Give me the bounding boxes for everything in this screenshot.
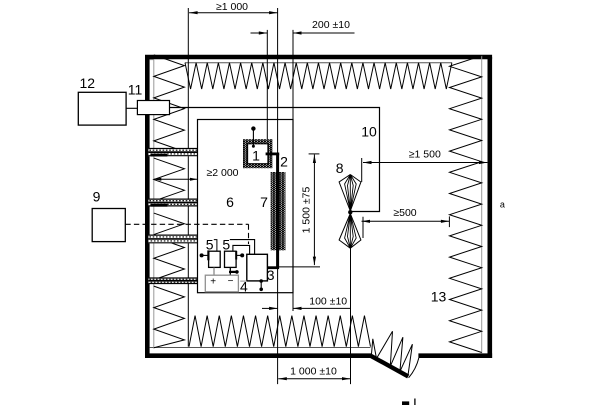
antenna lower cone outline	[339, 214, 361, 249]
dimension ge 500 left extension tick	[362, 217, 364, 238]
dimension 100pm10 left outside arrow	[269, 307, 278, 310]
power supply box 4	[205, 275, 238, 292]
svg-text:≥2 000: ≥2 000	[206, 167, 238, 179]
cable feedthrough strip 3 on left wall	[148, 235, 197, 244]
svg-text:3: 3	[267, 267, 275, 283]
absorber row on top wall (baseline)	[185, 62, 452, 64]
dimension ge 500 left arrow	[362, 220, 371, 223]
wire from label 5b area to load simulator	[230, 240, 255, 255]
dimension ge 2000 line	[154, 178, 198, 180]
wire from AN 5b top to load simulator	[233, 245, 250, 254]
dimension ge 2000 left arrow	[154, 178, 162, 181]
harness sleeve hatch	[271, 172, 286, 250]
dimension 200pm10 right outside arrow	[293, 31, 302, 34]
dimension 100pm10 right outside arrow line	[293, 307, 351, 309]
terminal tick on AN 5b	[235, 251, 237, 260]
svg-text:5: 5	[206, 236, 214, 252]
svg-text:100 ±10: 100 ±10	[309, 295, 347, 307]
door swing arc	[409, 358, 419, 378]
shielded enclosure top wall	[145, 55, 492, 60]
EUT 1 inner box	[248, 144, 268, 164]
antenna reference line x=350.5 (mast line down to bottom dim)	[350, 248, 352, 384]
door absorber spike 4	[400, 344, 413, 376]
door absorber spike 1	[371, 339, 376, 359]
wire into AN 5a	[202, 254, 209, 256]
svg-text:+: +	[210, 277, 216, 288]
absorber row on top wall (pyramids)	[185, 63, 452, 89]
negative terminal dot	[235, 270, 239, 274]
harness reference line x=277.6 (right ref of ge1000, runs to bottom dim)	[277, 8, 279, 384]
dimension 200pm10 left outside arrow	[259, 31, 268, 34]
bench edge reference line x=293 (right ref of 200pm10 and 100pm10)	[292, 30, 294, 311]
coax cable run from bulkhead to antenna (item 10 path)	[170, 108, 380, 212]
ground stub dot2	[259, 288, 263, 292]
svg-text:13: 13	[431, 289, 447, 305]
dimension ge 2000 right arrow	[190, 178, 198, 181]
absorber column on right wall (baseline)	[481, 56, 483, 354]
dimension ge 1500 right arrow	[479, 161, 488, 164]
cropped caption fragment stroke	[414, 399, 416, 405]
harness thick conductor	[276, 154, 279, 268]
probe dot above EUT	[251, 126, 255, 130]
antenna upper cone outline	[339, 175, 361, 212]
svg-text:11: 11	[128, 82, 143, 98]
dimension 1000pm10 left arrow	[278, 377, 287, 380]
shielded enclosure left wall	[145, 57, 150, 358]
probe inner dot	[252, 145, 255, 148]
wire stub dot right of AN 5b	[240, 253, 244, 257]
terminal tick on AN 5a	[207, 250, 209, 260]
dimension ge 500 right extension tick	[448, 216, 450, 227]
svg-text:12: 12	[80, 75, 96, 91]
svg-text:1 500 ±75: 1 500 ±75	[301, 187, 313, 234]
cable feedthrough strip 2 on left wall	[148, 199, 197, 207]
dimension ge 500 line	[362, 220, 450, 222]
svg-text:1: 1	[252, 148, 260, 164]
dimension 100pm10 left outside arrow line	[262, 307, 278, 309]
wire out of AN 5b	[236, 254, 242, 256]
shielded enclosure right wall	[487, 57, 492, 358]
svg-text:10: 10	[361, 124, 377, 140]
wire AN 5a to power supply	[213, 267, 215, 275]
svg-text:200 ±10: 200 ±10	[312, 19, 350, 31]
svg-text:2: 2	[280, 154, 288, 170]
wire from 12 to 11	[126, 107, 137, 109]
dimension 200pm10 left outside arrow line	[251, 32, 268, 34]
cable feedthrough strip 4 on left wall	[148, 278, 197, 285]
negative terminal tick	[229, 271, 236, 273]
svg-text:1 000 ±10: 1 000 ±10	[290, 366, 337, 378]
ground-plane bench outline 6	[198, 120, 294, 293]
bulkhead connector box 11	[137, 101, 169, 115]
svg-text:5: 5	[222, 236, 230, 252]
leader bracket from label 5a	[214, 240, 217, 252]
svg-text:−: −	[228, 276, 234, 287]
gray stub left of load simulator	[240, 280, 247, 282]
dimension 1500pm75 up arrow	[313, 155, 316, 164]
dimension 200pm10 right outside arrow line	[293, 32, 355, 34]
harness bottom stub to load simulator	[267, 266, 279, 269]
dimension 1000pm10 right arrow	[342, 377, 351, 380]
door absorber spike 2	[377, 331, 393, 366]
extension line at absorber tip plane x=188.3 (left reference for dim ge1000)	[187, 8, 189, 347]
dimension 1500pm75 line	[313, 155, 315, 266]
absorber column on right wall (pyramids)	[450, 56, 482, 353]
dimension ge 1500 line	[363, 162, 487, 164]
door leaf thick line	[371, 356, 408, 377]
EUT 1 hatched enclosure	[243, 139, 272, 168]
svg-text:7: 7	[260, 194, 268, 210]
ground stub line	[260, 281, 262, 288]
dimension ge 1000 right arrow	[269, 11, 278, 14]
cropped caption fragment dash	[402, 401, 409, 405]
dimension 1500pm75 bottom tick	[278, 266, 320, 268]
antenna lower cone meridians	[345, 214, 357, 249]
artificial network box 5a	[209, 251, 221, 267]
shielded enclosure bottom wall right of door	[418, 353, 492, 358]
svg-text:8: 8	[336, 160, 344, 176]
ground stub from load simulator dot1	[259, 279, 263, 283]
dimension ge 1500 extension tick at antenna edge	[361, 158, 363, 182]
dimension 100pm10 right outside arrow	[293, 307, 302, 310]
absorber column on left wall (top tie line)	[150, 59, 154, 61]
wire AN 5b to power supply	[229, 267, 231, 275]
artificial network box 5b	[225, 251, 237, 267]
probe lead into EUT	[252, 131, 254, 147]
cable feedthrough strip 1 on left wall	[148, 148, 197, 156]
absorber column on left wall (baseline)	[153, 60, 155, 349]
svg-text:a: a	[500, 200, 505, 210]
svg-text:6: 6	[226, 194, 234, 210]
dashed control line vertical drop	[248, 224, 250, 244]
dimension 1000pm10 line	[278, 378, 350, 380]
svg-text:≥500: ≥500	[393, 207, 416, 219]
absorber row on bottom wall (pyramids)	[189, 316, 370, 347]
extension line x=267.3 (left reference of dim 200pm10, ends on EUT)	[266, 30, 268, 139]
dimension 1500pm75 down arrow	[313, 257, 316, 266]
svg-text:≥1 000: ≥1 000	[216, 1, 248, 13]
shielded enclosure bottom wall left of door	[145, 353, 371, 358]
dimension 1500pm75 top tick	[309, 153, 320, 155]
door absorber spike 3	[390, 337, 403, 371]
antenna feed point dot	[348, 210, 352, 214]
dimension ge 1000 line	[189, 12, 278, 14]
absorber column on left wall (pyramids)	[154, 55, 185, 348]
wire stub dot left of AN 5a	[200, 253, 204, 257]
antenna upper cone meridians	[345, 175, 357, 212]
dimension ge 500 right arrow	[441, 220, 450, 223]
dashed control line from 9 into chamber	[125, 223, 248, 225]
support equipment box 9	[92, 209, 125, 242]
harness top stub to EUT	[266, 152, 280, 155]
svg-text:9: 9	[93, 189, 101, 205]
absorber row on bottom wall (baseline)	[150, 347, 371, 349]
svg-text:≥1 500: ≥1 500	[409, 149, 441, 161]
measuring instrument box 12	[78, 92, 126, 125]
dimension ge 1500 left arrow	[363, 161, 372, 164]
dimension ge 1000 left arrow	[189, 11, 198, 14]
load simulator box 3	[247, 254, 268, 281]
